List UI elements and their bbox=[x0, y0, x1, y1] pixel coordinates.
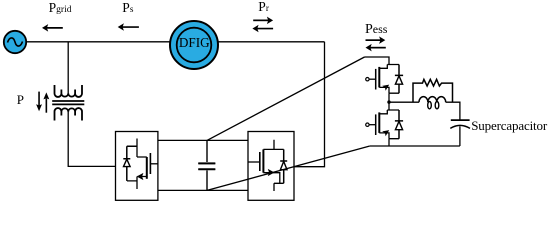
igbt Q1 gate lead bbox=[150, 163, 158, 165]
mosfet Q3 gate terminal circle bbox=[366, 78, 369, 81]
wire: dc link top rail bbox=[158, 139, 248, 141]
mosfet Q4 drain from mid node bbox=[387, 102, 399, 110]
wire: transformer to rotor-side converter bbox=[68, 112, 115, 167]
converter box 2 (grid-side converter) bbox=[248, 132, 294, 201]
arrow P down bbox=[36, 92, 42, 112]
capacitor C1 (dc link) bbox=[198, 140, 215, 190]
mosfet Q4 source lead with arrow bbox=[379, 133, 389, 139]
arrow Pr left-pointing bbox=[252, 25, 273, 33]
arrow Pess left-pointing bbox=[366, 44, 386, 52]
wire: rotor feed from top bus down to grid-side converter bbox=[294, 42, 325, 167]
arrow Pr right-pointing bbox=[253, 17, 273, 25]
wire: Q3 source join to mid node bbox=[389, 93, 399, 102]
mosfet Q4 gate terminal circle bbox=[366, 123, 369, 126]
svg-text:Pr: Pr bbox=[258, 0, 269, 14]
igbt Q1 gate bar bbox=[149, 153, 151, 174]
mosfet Q3 gate bar bbox=[375, 69, 377, 90]
mosfet Q3 source lead with arrow bbox=[379, 87, 389, 93]
diode D2 (anti-parallel, right box) bbox=[280, 149, 287, 183]
diode D1 (anti-parallel, left box) bbox=[123, 146, 137, 181]
wire: supercapacitor to bottom rail bbox=[459, 126, 461, 146]
transformer T1 primary winding bbox=[55, 85, 83, 97]
arrow Pgrid (left) bbox=[42, 24, 63, 32]
transformer T1 secondary winding bbox=[55, 108, 83, 120]
svg-text:DFIG: DFIG bbox=[179, 35, 210, 50]
igbt Q1 emitter lead with arrow bbox=[127, 177, 147, 190]
resistor R (braking) branch bbox=[413, 79, 453, 102]
mosfet Q3 drain lead bbox=[379, 65, 387, 69]
diode D3 (body diode of Q3) bbox=[395, 65, 403, 94]
mosfet Q4 drain lead bbox=[379, 110, 387, 114]
wire: top bus from DFIG to corner bbox=[218, 41, 325, 43]
node: mid junction dot bbox=[387, 100, 390, 103]
arrow P up bbox=[43, 92, 49, 112]
svg-text:Pess: Pess bbox=[365, 22, 388, 37]
wire: top stator bus from grid source to DFIG bbox=[26, 41, 171, 43]
wire: chopper bottom rail bbox=[370, 145, 460, 147]
wire: drop from top bus to transformer bbox=[67, 42, 69, 94]
diode D4 (body diode of Q4) bbox=[395, 110, 403, 139]
mosfet Q3 gate lead bbox=[369, 78, 376, 80]
svg-text:Ps: Ps bbox=[122, 0, 134, 15]
wire: dc link bottom rail bbox=[158, 189, 248, 191]
igbt Q2 gate lead bbox=[248, 161, 260, 163]
igbt Q2 gate bar bbox=[259, 152, 261, 171]
mosfet Q3 channel bar bbox=[378, 67, 380, 88]
svg-text:P: P bbox=[17, 92, 24, 107]
igbt Q1 collector lead bbox=[137, 139, 147, 158]
inductor L bbox=[419, 97, 446, 103]
igbt Q2 channel bar bbox=[262, 149, 264, 172]
DFIG machine (doubly-fed induction generator) bbox=[170, 21, 218, 69]
wire: mid rail to R-L branch bbox=[389, 101, 419, 103]
svg-text:Pgrid: Pgrid bbox=[49, 0, 72, 15]
igbt Q2 emitter lead with arrow bbox=[263, 173, 283, 191]
transformer T1 core bbox=[52, 101, 84, 104]
converter box 1 (rotor-side converter) bbox=[116, 132, 158, 201]
callout line upper (dc link to chopper detail) bbox=[207, 57, 365, 140]
arrow Ps (left) bbox=[118, 23, 139, 31]
wire: Q4 source join to bottom rail bbox=[389, 139, 399, 146]
wire: chopper top corner bbox=[365, 57, 400, 65]
supercapacitor C2 bbox=[451, 119, 470, 121]
mosfet Q4 gate bar bbox=[375, 114, 377, 135]
igbt Q1 channel bar bbox=[146, 157, 148, 179]
mosfet Q4 channel bar bbox=[378, 112, 380, 132]
mosfet Q4 gate lead bbox=[369, 124, 376, 126]
igbt Q2 collector lead bbox=[263, 140, 283, 150]
arrow Pess right-pointing bbox=[366, 36, 386, 44]
svg-text:Supercapacitor: Supercapacitor bbox=[471, 118, 548, 133]
wire: inductor to supercapacitor bbox=[446, 102, 460, 120]
callout line lower (dc link to chopper detail) bbox=[207, 146, 370, 190]
ac source (grid) bbox=[4, 31, 26, 53]
